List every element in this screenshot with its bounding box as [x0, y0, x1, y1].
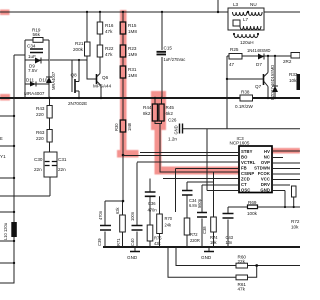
svg-text:R72: R72 [291, 219, 300, 224]
svg-text:100n: 100n [130, 211, 135, 221]
svg-text:220: 220 [36, 112, 44, 117]
svg-text:22n: 22n [34, 167, 42, 172]
svg-text:R30: R30 [114, 123, 119, 131]
svg-text:22n: 22n [58, 167, 66, 172]
svg-text:2R2: 2R2 [283, 59, 292, 64]
svg-text:DRV: DRV [261, 182, 270, 187]
svg-text:62k: 62k [115, 206, 120, 214]
svg-text:VCC: VCC [261, 177, 270, 182]
svg-text:R45: R45 [166, 105, 175, 110]
svg-text:MRA4007: MRA4007 [24, 91, 45, 96]
svg-text:BZD27-16D15SMD: BZD27-16D15SMD [270, 65, 275, 100]
svg-text:C31: C31 [58, 157, 67, 162]
svg-text:47k: 47k [238, 287, 246, 292]
svg-text:STBY: STBY [241, 149, 253, 154]
svg-text:R69: R69 [248, 200, 257, 205]
svg-text:R71: R71 [116, 238, 121, 246]
svg-text:STDWN: STDWN [254, 166, 270, 171]
svg-text:D7: D7 [256, 62, 262, 67]
svg-text:C30: C30 [34, 157, 43, 162]
svg-text:1uF: 1uF [28, 54, 36, 59]
svg-text:220: 220 [36, 136, 44, 141]
svg-text:HV: HV [264, 149, 270, 154]
svg-text:NC: NC [264, 155, 270, 160]
svg-text:GND: GND [260, 188, 270, 193]
svg-text:22k: 22k [238, 259, 246, 264]
svg-text:GND: GND [174, 125, 179, 134]
svg-text:BO: BO [241, 155, 248, 160]
svg-text:47: 47 [229, 62, 235, 67]
svg-text:L10 120u: L10 120u [3, 223, 8, 240]
svg-text:R16: R16 [105, 23, 114, 28]
svg-text:ZCD: ZCD [241, 177, 250, 182]
svg-text:7.5V: 7.5V [28, 68, 38, 73]
svg-text:1.2n: 1.2n [168, 137, 177, 142]
svg-text:OVP: OVP [261, 160, 270, 165]
svg-text:Y1: Y1 [0, 154, 6, 159]
svg-text:1uF/275Vac: 1uF/275Vac [164, 57, 186, 62]
svg-text:200k: 200k [73, 47, 84, 52]
svg-text:C15: C15 [164, 46, 173, 51]
svg-text:R21: R21 [75, 41, 84, 46]
svg-text:2N7002E: 2N7002E [68, 101, 87, 106]
svg-text:43k: 43k [154, 241, 162, 246]
svg-text:1N4148SMD: 1N4148SMD [247, 48, 270, 53]
svg-text:D11: D11 [26, 78, 35, 83]
svg-text:D10: D10 [39, 78, 48, 83]
svg-text:47k: 47k [105, 52, 113, 57]
svg-text:R15: R15 [128, 23, 137, 28]
svg-text:R22: R22 [105, 46, 114, 51]
svg-text:VCTRL: VCTRL [241, 160, 256, 165]
svg-text:NU: NU [250, 2, 257, 7]
svg-text:L7: L7 [243, 17, 249, 22]
svg-text:10n: 10n [226, 240, 234, 245]
svg-text:10k: 10k [210, 240, 218, 245]
svg-text:6k2: 6k2 [166, 111, 174, 116]
svg-text:C40: C40 [130, 238, 135, 246]
svg-text:24k: 24k [165, 223, 173, 228]
svg-text:NCP1605: NCP1605 [230, 141, 250, 146]
svg-text:CT: CT [241, 182, 247, 187]
svg-text:C26: C26 [168, 118, 177, 123]
svg-text:1M8: 1M8 [128, 73, 137, 78]
svg-text:Q7: Q7 [255, 84, 262, 89]
svg-text:OSC: OSC [241, 188, 250, 193]
svg-text:56k: 56k [33, 32, 41, 37]
svg-text:E: E [0, 136, 3, 141]
svg-text:GND: GND [201, 255, 212, 260]
svg-text:C38: C38 [202, 226, 207, 234]
svg-text:FB: FB [241, 166, 247, 171]
svg-text:10k: 10k [291, 225, 299, 230]
svg-text:R72: R72 [190, 232, 198, 237]
svg-text:R23: R23 [128, 46, 137, 51]
svg-text:120uH: 120uH [240, 40, 254, 45]
svg-text:MPSA44: MPSA44 [93, 84, 112, 89]
svg-text:1M8: 1M8 [127, 122, 132, 131]
svg-text:R63: R63 [36, 130, 45, 135]
svg-text:C39: C39 [97, 238, 102, 246]
svg-text:0.1R/2W: 0.1R/2W [235, 104, 254, 109]
svg-text:R43: R43 [36, 106, 45, 111]
svg-text:R70: R70 [165, 216, 173, 221]
svg-text:GND: GND [127, 255, 138, 260]
svg-text:560p: 560p [197, 198, 202, 208]
svg-text:220R: 220R [190, 238, 200, 243]
svg-text:470n: 470n [148, 208, 158, 213]
svg-text:R38: R38 [241, 90, 250, 95]
svg-text:47k: 47k [105, 29, 113, 34]
svg-text:C34: C34 [27, 44, 36, 49]
svg-text:MRA4007: MRA4007 [51, 71, 56, 90]
svg-text:8k2: 8k2 [143, 111, 151, 116]
svg-text:L3: L3 [233, 2, 239, 7]
svg-text:R31: R31 [128, 67, 137, 72]
svg-text:100k: 100k [247, 211, 258, 216]
svg-text:R44: R44 [143, 105, 152, 110]
svg-text:1M8: 1M8 [128, 29, 137, 34]
svg-text:R75: R75 [154, 236, 162, 241]
svg-text:Q8: Q8 [71, 73, 78, 78]
svg-text:10k: 10k [289, 78, 297, 83]
svg-text:CSINP: CSINP [241, 171, 254, 176]
svg-text:FCOK: FCOK [258, 171, 270, 176]
svg-text:R25: R25 [230, 47, 239, 52]
svg-text:470n: 470n [98, 210, 103, 220]
svg-text:1M9: 1M9 [128, 52, 137, 57]
svg-text:Q6: Q6 [102, 75, 109, 80]
svg-text:C36: C36 [148, 201, 156, 206]
